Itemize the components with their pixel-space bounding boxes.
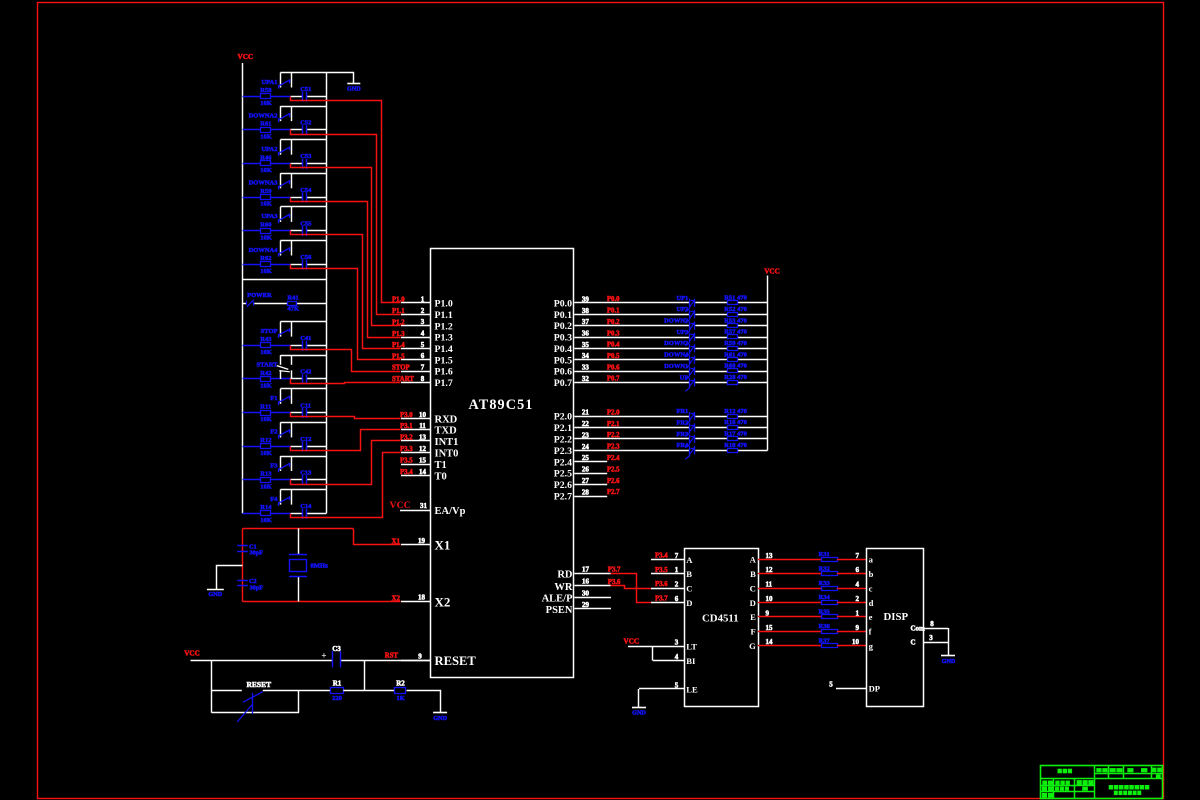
svg-text:8: 8: [421, 375, 425, 383]
svg-text:P0.6: P0.6: [554, 367, 572, 378]
svg-text:P2.0: P2.0: [607, 409, 620, 416]
svg-text:P0.4: P0.4: [554, 344, 572, 355]
svg-text:R57 470: R57 470: [724, 329, 747, 336]
MCU pin 10 RXD: [401, 418, 431, 420]
wire LT-BI tie: [652, 646, 654, 661]
wire segment R33 to DISP c: [837, 588, 867, 590]
svg-text:UPA2: UPA2: [261, 146, 277, 153]
svg-text:19: 19: [418, 537, 426, 545]
svg-text:P2.7: P2.7: [607, 489, 620, 496]
svg-text:GND: GND: [942, 658, 956, 665]
wire POWER cell top line: [243, 279, 327, 281]
MCU U1 AT89C51 body: [431, 249, 574, 678]
svg-text:3: 3: [929, 634, 933, 642]
wire net START to MCU: [291, 379, 401, 384]
svg-text:C: C: [686, 584, 692, 594]
CD4511 pin 1 input B: [651, 573, 684, 575]
svg-text:P0.1: P0.1: [607, 308, 620, 315]
svg-text:C13: C13: [300, 470, 312, 477]
svg-text:33: 33: [582, 364, 590, 372]
svg-text:3: 3: [675, 638, 679, 646]
svg-text:P3.6: P3.6: [655, 581, 668, 588]
svg-text:R28 470: R28 470: [724, 374, 747, 381]
svg-text:STOP: STOP: [392, 365, 410, 372]
svg-text:8MHz: 8MHz: [311, 563, 328, 570]
capacitor C52: [302, 125, 304, 135]
svg-text:LT: LT: [686, 641, 697, 651]
svg-text:START: START: [392, 376, 414, 383]
wire node row F2: [243, 446, 261, 448]
resistor R58 10K: [261, 94, 271, 99]
svg-text:P1.5: P1.5: [392, 353, 405, 360]
svg-text:R34: R34: [819, 594, 831, 601]
svg-text:P1.6: P1.6: [435, 367, 453, 378]
svg-text:C56: C56: [300, 254, 312, 261]
wire net F4 to MCU: [291, 453, 401, 518]
svg-text:4: 4: [675, 653, 679, 661]
svg-text:FR4: FR4: [676, 442, 689, 449]
svg-text:R46: R46: [260, 154, 272, 161]
svg-text:P2.6: P2.6: [607, 478, 620, 485]
LED FR3: [689, 435, 691, 445]
wire net P3.7 RD to 4511 D: [611, 574, 652, 603]
svg-text:X1: X1: [435, 538, 451, 553]
svg-text:C11: C11: [300, 402, 311, 409]
svg-text:P0.4: P0.4: [607, 342, 620, 349]
svg-text:R17 470: R17 470: [724, 431, 747, 438]
svg-text:23: 23: [582, 431, 590, 439]
CD4511 pin 5 LE: [639, 688, 684, 690]
resistor R43 10K: [261, 343, 271, 348]
svg-text:+: +: [321, 650, 326, 660]
svg-text:E: E: [750, 612, 756, 622]
svg-text:Com: Com: [911, 625, 926, 633]
svg-text:7: 7: [421, 364, 425, 372]
svg-text:34: 34: [582, 352, 590, 360]
svg-text:FR1: FR1: [676, 408, 688, 415]
MCU pin 6 P1.5: [401, 359, 431, 361]
svg-text:1K: 1K: [396, 695, 404, 702]
svg-text:EA/Vp: EA/Vp: [435, 506, 466, 517]
resistor R13 10K: [261, 478, 271, 483]
capacitor C51: [302, 92, 304, 102]
svg-text:UP3: UP3: [676, 329, 689, 336]
MCU pin 25 P2.4: [574, 461, 607, 463]
svg-text:2: 2: [856, 595, 860, 603]
wire node row POWER: [243, 303, 247, 305]
svg-text:P0.5: P0.5: [554, 355, 572, 366]
svg-text:R14: R14: [260, 504, 272, 511]
wire segment R31 to DISP a: [837, 559, 867, 561]
resistor R61 470: [728, 358, 738, 362]
wire R2 to ground: [407, 691, 441, 713]
svg-text:VCC: VCC: [764, 268, 780, 276]
svg-text:C12: C12: [300, 436, 311, 443]
svg-text:P1.0: P1.0: [435, 299, 453, 310]
svg-text:A: A: [750, 555, 757, 565]
svg-text:P2.6: P2.6: [554, 480, 572, 491]
svg-text:WR: WR: [554, 582, 573, 593]
svg-text:UP: UP: [680, 374, 689, 381]
ground symbol DISP common: [941, 655, 955, 657]
ground symbol 4511 LE: [632, 707, 646, 709]
wire net UPA3 to MCU: [291, 231, 401, 349]
capacitor C42: [302, 374, 304, 384]
svg-text:28: 28: [582, 488, 590, 496]
CD4511 pin 7 input A: [651, 559, 684, 561]
capacitor C1 30pF: [237, 545, 248, 547]
capacitor C54: [302, 193, 304, 203]
svg-text:e: e: [869, 612, 873, 622]
resistor R12 10K: [261, 444, 271, 449]
svg-text:R59: R59: [260, 188, 272, 195]
resistor R1 220: [331, 688, 344, 694]
svg-text:T1: T1: [435, 460, 447, 471]
svg-text:T0: T0: [435, 472, 447, 483]
svg-text:5: 5: [829, 680, 833, 688]
svg-text:P3.2: P3.2: [400, 434, 413, 441]
resistor R41 47K: [288, 302, 297, 306]
title block frame: [1041, 766, 1163, 799]
wire segment G to resistor: [758, 645, 821, 647]
svg-text:F4: F4: [270, 496, 278, 503]
switch F1: [280, 388, 326, 390]
resistor R61 10K: [261, 128, 271, 133]
svg-text:INT1: INT1: [435, 437, 459, 448]
svg-text:6: 6: [675, 595, 679, 603]
svg-text:LE: LE: [686, 684, 698, 694]
wire reset left drop: [211, 661, 213, 713]
svg-text:P2.5: P2.5: [607, 466, 620, 473]
svg-text:DOWNA4: DOWNA4: [249, 247, 279, 254]
svg-text:10K: 10K: [260, 134, 272, 141]
svg-text:POWER: POWER: [247, 292, 272, 299]
svg-text:VCC: VCC: [184, 650, 200, 658]
wire button upper contact: [212, 690, 242, 692]
svg-text:10K: 10K: [260, 234, 272, 241]
svg-text:INT0: INT0: [435, 449, 459, 460]
svg-text:P2.3: P2.3: [607, 444, 620, 451]
svg-text:10K: 10K: [260, 201, 272, 208]
switch UPA1: [280, 72, 326, 74]
svg-text:STOP: STOP: [261, 328, 278, 335]
MCU pin 13 INT1: [401, 440, 431, 442]
MCU pin 28 P2.7: [574, 496, 607, 498]
svg-text:1: 1: [675, 566, 679, 574]
svg-text:START: START: [257, 362, 279, 369]
svg-text:UPA1: UPA1: [261, 79, 277, 86]
svg-text:10K: 10K: [260, 483, 272, 490]
LED DOWN4: [689, 355, 691, 365]
MCU pin 17 RD: [574, 573, 611, 575]
svg-text:F2: F2: [270, 429, 277, 436]
DISP pin 3 Com: [924, 642, 948, 644]
svg-text:b: b: [869, 569, 874, 579]
svg-text:P0.3: P0.3: [607, 330, 620, 337]
svg-text:10K: 10K: [260, 268, 272, 275]
svg-text:9: 9: [418, 652, 422, 660]
svg-text:10K: 10K: [260, 416, 272, 423]
svg-text:31: 31: [420, 502, 428, 510]
MCU pin 5 P1.4: [401, 348, 431, 350]
resistor R52 470: [728, 313, 738, 317]
svg-text:P1.1: P1.1: [435, 310, 453, 321]
svg-text:R42: R42: [260, 370, 271, 377]
svg-text:7: 7: [856, 552, 860, 560]
wire net DOWNA2 to MCU: [291, 130, 401, 315]
svg-text:DOWN3: DOWN3: [664, 318, 689, 325]
ground symbol keypad: [347, 83, 360, 85]
MCU pin 36 P0.3: [574, 337, 689, 339]
svg-text:RESET: RESET: [435, 654, 477, 668]
capacitor C53: [302, 159, 304, 169]
capacitor C12: [302, 442, 304, 452]
svg-text:GND: GND: [632, 710, 646, 717]
resistor R31: [822, 558, 838, 562]
svg-text:F1: F1: [270, 395, 277, 402]
svg-text:X2: X2: [435, 594, 451, 609]
MCU pin 2 P1.1: [401, 314, 431, 316]
svg-text:P3.3: P3.3: [400, 446, 413, 453]
svg-text:R61 470: R61 470: [724, 351, 747, 358]
switch F2: [280, 422, 326, 424]
svg-text:6: 6: [856, 566, 860, 574]
svg-text:P2.4: P2.4: [607, 455, 620, 462]
resistor R34: [822, 601, 838, 605]
decoder U2 CD4511 body: [685, 549, 759, 707]
svg-text:C52: C52: [300, 120, 311, 127]
wire segment R36 to DISP f: [837, 631, 867, 633]
svg-text:D: D: [750, 598, 756, 608]
MCU pin 30 ALE/P: [574, 597, 611, 599]
MCU pin 24 P2.3: [574, 450, 689, 452]
LED FR4: [689, 446, 691, 456]
svg-text:a: a: [869, 555, 874, 565]
wire net P3.6 WR to 4511 C: [611, 586, 652, 589]
svg-text:P3.4: P3.4: [400, 469, 413, 476]
resistor R32: [822, 572, 838, 576]
svg-text:11: 11: [419, 422, 426, 430]
svg-text:P2.0: P2.0: [554, 412, 572, 423]
svg-text:R11: R11: [260, 403, 271, 410]
svg-text:10: 10: [852, 638, 860, 646]
MCU pin 16 WR: [574, 585, 611, 587]
crystal Y1 8MHz: [298, 528, 300, 554]
svg-text:VCC: VCC: [238, 53, 254, 61]
resistor R62 10K: [261, 262, 271, 267]
wire RST junction drop: [364, 661, 366, 691]
switch F3: [280, 456, 326, 458]
svg-text:B: B: [750, 569, 756, 579]
svg-text:R2: R2: [396, 680, 405, 688]
display DS1 DISP body: [867, 549, 924, 707]
svg-text:R58: R58: [260, 87, 272, 94]
svg-text:g: g: [869, 641, 874, 651]
svg-text:RESET: RESET: [247, 680, 272, 689]
svg-text:30: 30: [582, 589, 590, 597]
wire node row F1: [243, 412, 261, 414]
svg-text:BI: BI: [686, 656, 696, 666]
resistor R57 470: [728, 335, 738, 339]
resistor R2 1K: [395, 688, 406, 694]
svg-text:R43: R43: [260, 336, 272, 343]
wire node row F4: [243, 513, 261, 515]
wire GND rail keypad: [326, 72, 328, 513]
svg-text:P1.3: P1.3: [435, 333, 453, 344]
svg-text:c: c: [869, 583, 873, 593]
svg-text:UPA3: UPA3: [261, 213, 278, 220]
svg-text:PSEN: PSEN: [546, 605, 573, 616]
svg-text:7: 7: [675, 552, 679, 560]
svg-text:P2.7: P2.7: [554, 492, 572, 503]
MCU pin 8 P1.7: [401, 382, 431, 384]
LED UP3: [689, 333, 691, 343]
LED FR1: [689, 412, 691, 422]
svg-text:P0.1: P0.1: [554, 310, 572, 321]
title block text: [1058, 769, 1062, 774]
MCU pin 21 P2.0: [574, 416, 689, 418]
CD4511 pin 6 input D: [651, 602, 684, 604]
resistor R60 10K: [261, 229, 271, 234]
resistor R14 10K: [261, 511, 271, 516]
svg-text:R60: R60: [260, 222, 271, 229]
svg-text:P2.5: P2.5: [554, 469, 572, 480]
svg-text:RD: RD: [557, 570, 573, 581]
LED UP: [689, 378, 691, 388]
LED FR2: [689, 423, 691, 433]
LED UP1: [689, 299, 691, 309]
wire net UPA2 to MCU: [291, 164, 401, 326]
DISP pin 8 Com: [924, 628, 948, 630]
wire segment R37 to DISP g: [837, 645, 867, 647]
svg-text:C51: C51: [300, 86, 311, 93]
capacitor C56: [302, 260, 304, 270]
svg-text:TXD: TXD: [435, 426, 458, 437]
svg-text:P3.1: P3.1: [400, 423, 413, 430]
svg-text:10K: 10K: [260, 450, 272, 457]
svg-text:11: 11: [766, 581, 773, 589]
wire X1 net: [243, 528, 354, 530]
svg-text:47K: 47K: [287, 305, 299, 312]
resistor R35: [822, 615, 838, 619]
svg-text:R59 470: R59 470: [724, 340, 747, 347]
svg-text:RST: RST: [385, 652, 399, 659]
svg-text:RXD: RXD: [435, 415, 458, 426]
svg-text:VCC: VCC: [390, 500, 411, 511]
LED DOWN1: [689, 367, 691, 377]
svg-text:R1: R1: [333, 680, 342, 688]
wire node row DOWNA4: [243, 264, 261, 266]
switch DOWNA2: [280, 106, 326, 108]
resistor R12 470: [728, 415, 738, 419]
svg-text:DOWN4: DOWN4: [664, 352, 689, 359]
svg-text:1: 1: [856, 609, 860, 617]
svg-text:5: 5: [675, 681, 679, 689]
MCU pin 39 P0.0: [574, 302, 689, 304]
svg-text:P3.4: P3.4: [655, 552, 668, 559]
svg-text:A: A: [686, 555, 693, 565]
svg-text:27: 27: [582, 477, 590, 485]
svg-text:R41: R41: [287, 295, 298, 302]
svg-text:P3.5: P3.5: [655, 567, 668, 574]
svg-text:16: 16: [582, 578, 590, 586]
svg-text:29: 29: [582, 601, 590, 609]
svg-text:R60 470: R60 470: [724, 363, 747, 370]
svg-text:P2.1: P2.1: [607, 421, 620, 428]
resistor R51 470: [728, 301, 738, 305]
MCU pin 34 P0.5: [574, 359, 689, 361]
svg-text:ALE/P: ALE/P: [542, 593, 574, 604]
wire net UPA1 to MCU: [291, 97, 401, 303]
svg-text:10: 10: [419, 411, 427, 419]
svg-text:21: 21: [582, 409, 590, 417]
MCU pin 4 P1.3: [401, 337, 431, 339]
svg-text:6: 6: [421, 352, 425, 360]
svg-text:10K: 10K: [260, 167, 272, 174]
wire net STOP to MCU: [291, 346, 401, 372]
wire crystal GND branch: [217, 566, 243, 590]
svg-text:2: 2: [675, 581, 679, 589]
wire LE to ground: [638, 689, 640, 708]
svg-text:26: 26: [582, 466, 590, 474]
svg-text:R51 470: R51 470: [724, 295, 747, 302]
svg-text:D: D: [686, 598, 692, 608]
svg-text:8: 8: [930, 620, 934, 628]
svg-text:R12 470: R12 470: [724, 408, 747, 415]
LED UP2: [689, 310, 691, 320]
svg-text:17: 17: [582, 565, 590, 573]
svg-text:C55: C55: [300, 220, 312, 227]
LED DOWN2: [689, 344, 691, 354]
svg-text:10K: 10K: [260, 383, 272, 390]
svg-text:4: 4: [421, 330, 425, 338]
svg-text:37: 37: [582, 318, 590, 326]
svg-text:P0.0: P0.0: [554, 299, 572, 310]
switch UPA3: [280, 206, 326, 208]
svg-text:15: 15: [766, 624, 774, 632]
resistor R36: [822, 630, 838, 634]
svg-text:39: 39: [582, 295, 590, 303]
MCU pin 33 P0.6: [574, 371, 689, 373]
svg-text:FR3: FR3: [676, 431, 689, 438]
wire node row F3: [243, 479, 261, 481]
svg-text:C: C: [911, 639, 916, 647]
ground symbol reset: [433, 712, 447, 714]
svg-text:R36: R36: [819, 623, 831, 630]
svg-text:d: d: [869, 598, 874, 608]
svg-text:R31: R31: [819, 551, 830, 558]
wire segment A to resistor: [758, 559, 821, 561]
svg-text:CD4511: CD4511: [702, 613, 739, 625]
wire net F2 to MCU: [291, 430, 401, 451]
svg-text:38: 38: [582, 307, 590, 315]
svg-text:DISP: DISP: [884, 611, 909, 623]
svg-text:14: 14: [419, 468, 427, 476]
svg-text:VCC: VCC: [624, 638, 640, 646]
wire net DOWNA3 to MCU: [291, 198, 401, 338]
svg-text:R35: R35: [819, 609, 831, 616]
wire segment C to resistor: [758, 588, 821, 590]
svg-text:2: 2: [421, 307, 425, 315]
capacitor C13: [302, 475, 304, 485]
svg-text:C3: C3: [332, 645, 341, 653]
wire node row START: [243, 378, 261, 380]
svg-text:R18 470: R18 470: [724, 442, 747, 449]
capacitor C3 electrolytic: [332, 651, 334, 667]
MCU pin 14 T0: [401, 475, 431, 477]
wire node row DOWNA3: [243, 197, 261, 199]
svg-text:R32: R32: [819, 565, 830, 572]
